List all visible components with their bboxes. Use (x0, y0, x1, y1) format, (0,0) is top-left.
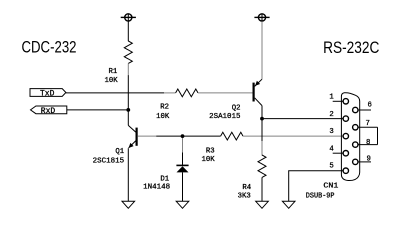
svg-text:9: 9 (367, 155, 371, 163)
svg-text:D1: D1 (160, 176, 169, 184)
svg-text:Q2: Q2 (232, 104, 241, 112)
svg-text:RxD: RxD (41, 107, 56, 116)
svg-text:DSUB-9P: DSUB-9P (306, 193, 335, 201)
svg-text:3K3: 3K3 (238, 193, 251, 201)
svg-text:10K: 10K (202, 156, 216, 164)
svg-text:R4: R4 (242, 184, 251, 192)
svg-text:10K: 10K (104, 77, 118, 85)
svg-text:5: 5 (329, 163, 333, 171)
svg-text:RS-232C: RS-232C (323, 38, 379, 57)
svg-text:CDC-232: CDC-232 (22, 38, 77, 57)
svg-text:2SA1015: 2SA1015 (209, 113, 240, 121)
svg-text:1N4148: 1N4148 (143, 184, 170, 192)
svg-text:R2: R2 (160, 104, 169, 112)
svg-text:3: 3 (329, 128, 333, 136)
svg-text:TxD: TxD (40, 90, 55, 99)
svg-text:10K: 10K (156, 113, 170, 121)
svg-text:2: 2 (329, 111, 333, 119)
svg-text:CN1: CN1 (323, 182, 339, 190)
svg-text:R1: R1 (109, 68, 118, 76)
svg-text:2SC1815: 2SC1815 (93, 157, 124, 165)
svg-text:4: 4 (329, 145, 334, 153)
svg-text:8: 8 (366, 139, 370, 147)
svg-text:1: 1 (329, 94, 334, 102)
svg-text:7: 7 (366, 120, 370, 128)
svg-text:Q1: Q1 (115, 148, 124, 156)
svg-text:R3: R3 (206, 148, 215, 156)
svg-text:6: 6 (368, 101, 372, 109)
